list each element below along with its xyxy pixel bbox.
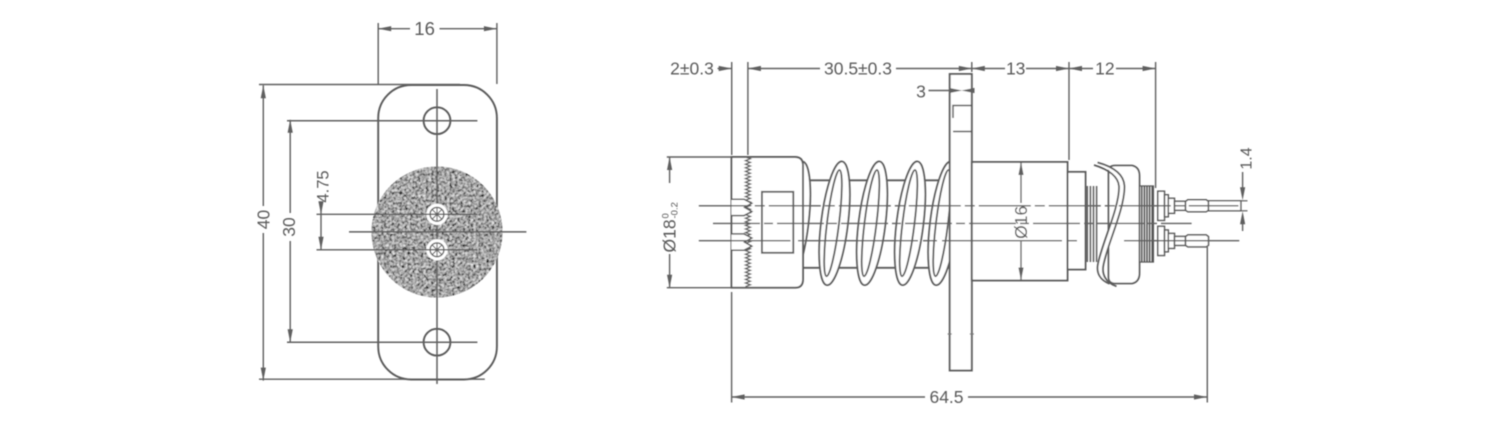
dim 13	[972, 62, 1069, 160]
svg-text:13: 13	[1006, 59, 1025, 79]
svg-text:4.75: 4.75	[315, 170, 333, 202]
svg-text:30: 30	[279, 217, 299, 237]
solder pin P1 (upper)	[426, 204, 447, 225]
wire break symbol upper	[732, 199, 752, 215]
insert circle (stippled)	[372, 167, 503, 298]
dim Ø18	[667, 157, 732, 288]
mounting hole bottom	[424, 329, 451, 356]
pin centerline lower	[317, 249, 478, 251]
centerline main axis	[713, 222, 1192, 224]
spring coil turn 3	[889, 160, 931, 287]
dim 16	[378, 23, 497, 84]
dim 12	[1069, 62, 1156, 188]
wire break symbol lower	[732, 234, 752, 250]
main horizontal centerline front	[349, 231, 526, 233]
dim 30	[288, 120, 293, 342]
svg-text:30.5±0.3: 30.5±0.3	[824, 59, 892, 79]
bottom hole centerline	[287, 341, 477, 343]
dim 4.75	[318, 201, 323, 250]
dim 40	[259, 85, 485, 381]
spring coil turn 4	[923, 160, 965, 287]
svg-text:Ø16: Ø16	[1011, 206, 1031, 239]
mounting flange plate (side)	[950, 74, 972, 371]
svg-text:3: 3	[916, 82, 926, 102]
centerline upper pin	[699, 205, 1239, 207]
dim 30.5±0.3	[748, 62, 972, 72]
rear cap body	[732, 157, 804, 288]
mounting hole top	[424, 107, 451, 134]
knurl band on cap	[746, 157, 751, 287]
spring coil turn 1	[814, 160, 856, 287]
front shell cylinder Ø16	[972, 162, 1068, 281]
solder pin P2 (lower)	[426, 239, 447, 260]
dim 1.4	[1240, 172, 1248, 231]
vertical centerline front	[436, 89, 438, 384]
flange hole (side, upper)	[953, 106, 972, 132]
svg-text:16: 16	[414, 18, 435, 39]
lower pin contact	[1158, 226, 1209, 255]
dim Ø16	[1018, 162, 1023, 281]
svg-text:12: 12	[1095, 59, 1114, 79]
upper pin contact	[1158, 191, 1241, 220]
flange hole tick (side, lower)	[948, 333, 952, 335]
spring coil turn 2	[851, 160, 893, 287]
svg-text:64.5: 64.5	[929, 387, 963, 407]
svg-text:2±0.3: 2±0.3	[670, 59, 714, 79]
pin centerline upper	[317, 213, 478, 215]
step section	[1068, 172, 1086, 270]
svg-text:1.4: 1.4	[1239, 147, 1256, 169]
svg-text:40: 40	[253, 210, 273, 230]
lock nut	[1109, 166, 1140, 284]
curved spring washer	[1094, 163, 1125, 287]
thread end band 2	[1140, 186, 1154, 262]
svg-text:Ø18: Ø18	[660, 219, 680, 252]
thread band 1	[1087, 186, 1096, 262]
centerline lower pin	[699, 240, 791, 242]
top hole centerline	[287, 120, 477, 122]
insert window in cap	[762, 192, 793, 253]
spring coil turn 0 (partial, behind cap)	[774, 160, 816, 287]
spring core cylinder	[803, 179, 949, 181]
flange plate front outline	[378, 85, 497, 380]
svg-text:-0.2: -0.2	[670, 202, 681, 218]
dim 64.5	[732, 247, 1208, 403]
